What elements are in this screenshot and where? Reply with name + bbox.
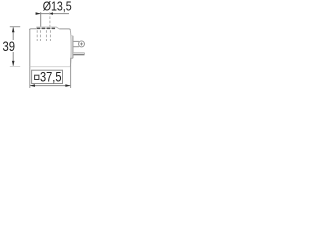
- connector boss top link: [70, 35, 73, 37]
- lower flange right cap: [83, 53, 85, 55]
- extension line bottom of 39: [10, 65, 20, 67]
- dimension line 39 lower segment: [12, 52, 14, 66]
- ridge tooth 1: [37, 28, 40, 29]
- extension line left of Ø13,5: [40, 12, 42, 26]
- ridge tooth 3: [47, 28, 50, 29]
- arrow right of Ø13,5 (points left, tip at right extension line): [49, 12, 53, 15]
- svg-text:39: 39: [3, 39, 16, 54]
- dimension line 39 upper segment: [12, 27, 14, 40]
- ridge raised top line: [37, 27, 59, 29]
- extension line top of 39: [10, 26, 20, 28]
- dimension line Ø13,5: [36, 13, 70, 15]
- extension line right of 37,5: [70, 58, 72, 88]
- coil body right edge (slightly bulged): [69, 30, 72, 66]
- ridge tooth 2: [42, 28, 45, 29]
- hidden hole line 3: [45, 30, 47, 41]
- arrow right of 37,5: [65, 84, 70, 87]
- connector boss face line: [72, 36, 74, 58]
- coil body bottom edge: [30, 66, 70, 68]
- spade tab hole ring: [79, 41, 85, 47]
- extension line right of Ø13,5: [49, 12, 51, 26]
- arrow left of Ø13,5 (points right, tip at left extension line): [36, 12, 41, 15]
- coil body left edge: [29, 29, 31, 67]
- lower flange bottom line: [73, 54, 84, 56]
- background: [0, 0, 100, 91]
- hidden hole line 2: [39, 30, 41, 41]
- hidden hole line 1: [36, 30, 38, 41]
- arrow up of 39: [12, 27, 15, 32]
- spade hole cross tick: [81, 42, 83, 45]
- coil body top edge right part: [59, 29, 70, 30]
- connector boss bottom link: [70, 57, 73, 59]
- spade tab hole center dot: [81, 43, 83, 45]
- lower flange top line: [73, 53, 84, 55]
- frame box around 37,5: [32, 70, 63, 83]
- ridge tooth 4: [52, 28, 55, 29]
- ridge band base line: [37, 27, 55, 29]
- square section symbol: [35, 75, 39, 79]
- spade tab bottom edge: [73, 46, 79, 48]
- dimension line 37,5: [30, 85, 70, 87]
- svg-text:Ø13,5: Ø13,5: [43, 0, 72, 14]
- arrow down of 39: [12, 61, 15, 66]
- arrow left of 37,5: [30, 84, 35, 87]
- spade tab top edge: [73, 40, 79, 42]
- svg-text:37,5: 37,5: [40, 69, 62, 84]
- coil body top edge left part: [29, 29, 36, 30]
- hidden hole line 4: [49, 30, 51, 41]
- extension line left of 37,5: [29, 67, 31, 88]
